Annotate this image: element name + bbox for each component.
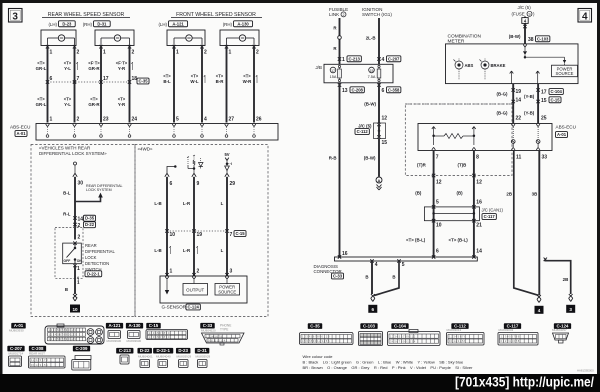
svg-text:J/C (5): J/C (5) (358, 123, 372, 128)
svg-text:LOCK SYSTEM: LOCK SYSTEM (86, 188, 112, 192)
svg-text:9: 9 (197, 181, 200, 187)
svg-text:Y-R: Y-R (118, 102, 126, 107)
svg-text:15: 15 (382, 140, 388, 146)
G-SENSOR box (160, 276, 247, 303)
svg-text:1 2 3 4 5 6 7 8: 1 2 3 4 5 6 7 8 (206, 335, 223, 338)
svg-text:B: B (65, 287, 68, 292)
connector C-208 below J/B (338, 83, 341, 86)
svg-text:C-15: C-15 (550, 97, 560, 102)
svg-text:2: 2 (132, 50, 135, 56)
svg-text:3 4 5 6 7 8 9 0 1 2 3 4: 3 4 5 6 7 8 9 0 1 2 3 4 (390, 339, 416, 343)
svg-text:J/B: J/B (315, 65, 322, 70)
svg-text:12: 12 (476, 180, 482, 186)
svg-text:L: L (221, 248, 224, 253)
BRAKE warning lamp (481, 61, 489, 69)
svg-text:ABS-ECU: ABS-ECU (10, 125, 30, 130)
svg-text:(B-G): (B-G) (497, 92, 509, 97)
connector C-207 (377, 57, 380, 60)
svg-text:9: 9 (529, 13, 531, 17)
svg-text:18: 18 (132, 76, 138, 82)
svg-text:J/C (5): J/C (5) (518, 5, 532, 10)
svg-text:B: B (365, 275, 368, 280)
svg-text:<T>: <T> (37, 97, 45, 102)
svg-text:1: 1 (170, 269, 173, 275)
svg-text:MU803929: MU803929 (177, 355, 192, 359)
svg-text:Y-L: Y-L (64, 66, 71, 71)
svg-text:4: 4 (204, 117, 207, 123)
wire to G-sensor pin 1 (166, 231, 168, 276)
svg-text:6: 6 (170, 181, 173, 187)
svg-text:10: 10 (436, 223, 442, 229)
svg-text:<T>: <T> (90, 97, 98, 102)
svg-text:<T> (B-L): <T> (B-L) (406, 238, 426, 243)
wire GR-R rear RH+ to ABS-ECU (100, 47, 102, 123)
svg-text:MU803930: MU803930 (107, 339, 122, 343)
wire CAN-L ECU pin 8 to diagnosis pin 14 (473, 151, 475, 258)
body ground (rear diff switch) (73, 294, 77, 298)
inline connector D-22 (73, 223, 76, 226)
svg-text:MU801714: MU801714 (9, 352, 24, 356)
svg-text:6: 6 (50, 76, 53, 82)
svg-text:[701x435] http://upic.me/: [701x435] http://upic.me/ (455, 374, 594, 390)
fusible link wire (339, 18, 341, 64)
body ground (diagnosis) (371, 294, 375, 298)
svg-text:17: 17 (331, 69, 335, 73)
inline connector D-35 (73, 216, 76, 219)
svg-text:9 10 11 12 13 4: 9 10 11 12 13 4 (208, 339, 226, 342)
svg-text:<T> (B-L): <T> (B-L) (449, 238, 469, 243)
page number box 3 (9, 9, 23, 23)
svg-text:D-22: D-22 (140, 348, 150, 353)
svg-text:D-22-1: D-22-1 (87, 271, 100, 276)
svg-text:9 0 1 2 3 4 5 6: 9 0 1 2 3 4 5 6 (31, 363, 48, 367)
J/C (CAN1) C-117 (424, 207, 479, 221)
J/B junction block (324, 64, 393, 83)
svg-text:C-33: C-33 (203, 323, 213, 328)
svg-text:D-22: D-22 (85, 222, 95, 227)
connector pinout C-209 (73, 346, 90, 352)
svg-text:15: 15 (541, 98, 547, 104)
svg-text:5: 5 (176, 117, 179, 123)
svg-text:REAR HIST: REAR HIST (29, 352, 45, 356)
svg-text:<T>: <T> (243, 74, 251, 79)
svg-text:7: 7 (77, 76, 80, 82)
svg-text:DETECTION: DETECTION (85, 261, 109, 266)
B-W wire: ignition feed (378, 83, 380, 123)
pin 30 wire from ECU (74, 162, 77, 165)
svg-text:Y-R: Y-R (118, 66, 126, 71)
svg-text:DIFFERENTIAL: DIFFERENTIAL (85, 249, 115, 254)
svg-text:38: 38 (528, 37, 534, 43)
diagnosis connector C-33 bar (335, 257, 478, 261)
svg-text:C-207: C-207 (10, 346, 23, 351)
svg-text:1 2 3 4 5 6 7 8: 1 2 3 4 5 6 7 8 (449, 335, 466, 339)
svg-text:L-B: L-B (154, 201, 161, 206)
svg-text:1: 1 (103, 50, 106, 56)
svg-text:30: 30 (78, 181, 84, 187)
svg-text:B-L: B-L (163, 79, 171, 84)
svg-text:MU803930: MU803930 (127, 339, 142, 343)
svg-text:1 2 3 4 5 6 7 8: 1 2 3 4 5 6 7 8 (31, 358, 48, 362)
connector pinout C-112 (451, 323, 468, 329)
R-B wire down to diagnosis connector pin 16 (339, 83, 341, 257)
svg-text:(B-W): (B-W) (509, 34, 521, 39)
svg-text:Y-L: Y-L (64, 102, 71, 107)
svg-text:22: 22 (516, 116, 522, 122)
svg-text:2: 2 (204, 50, 207, 56)
svg-text:C-33: C-33 (333, 274, 343, 279)
svg-text:6: 6 (382, 88, 385, 94)
svg-text:A-01: A-01 (14, 323, 24, 328)
svg-text:1: 1 (229, 50, 232, 56)
svg-text:1: 1 (50, 50, 53, 56)
fuse 15 7.5A (369, 67, 375, 73)
svg-text:G-SENSOR: G-SENSOR (162, 305, 187, 310)
connector pinout A-01 (11, 323, 25, 329)
svg-text:MU803043: MU803043 (499, 328, 514, 332)
svg-text:1 2 3 4 5 6 7 8 9: 1 2 3 4 5 6 7 8 9 (501, 335, 520, 339)
svg-text:<F·T>: <F·T> (88, 61, 100, 66)
svg-text:3: 3 (12, 12, 18, 23)
body ground 4 (537, 295, 541, 299)
wire Y-R rear RH- to ABS-ECU (129, 47, 131, 123)
svg-text:7.5A: 7.5A (368, 75, 376, 79)
svg-text:27: 27 (229, 117, 235, 123)
svg-text:MU804520: MU804520 (201, 329, 216, 333)
svg-text:C-15: C-15 (149, 323, 159, 328)
svg-text:LOCK: LOCK (85, 255, 97, 260)
wire B-R front RH+ to ABS-ECU (226, 47, 228, 123)
svg-text:C-208: C-208 (351, 87, 363, 92)
svg-text:2: 2 (77, 117, 80, 123)
wire G-sensor pin 9 (193, 177, 195, 231)
diagnosis ground wires (370, 259, 373, 262)
svg-text:16: 16 (342, 251, 348, 257)
svg-text:19: 19 (197, 232, 203, 238)
svg-text:4: 4 (375, 262, 378, 268)
svg-text:3: 3 (569, 307, 572, 312)
connector pinout C-104 (391, 323, 408, 329)
svg-text:C-209: C-209 (76, 346, 89, 351)
svg-text:B-R: B-R (216, 79, 225, 84)
connector pinout A-121 (106, 323, 123, 329)
wire Y-L rear LH- to ABS-ECU (74, 47, 76, 123)
svg-text:SOURCE: SOURCE (556, 71, 574, 76)
body ground 3 (569, 294, 573, 298)
svg-text:14: 14 (516, 98, 522, 104)
svg-text:A-130: A-130 (237, 21, 249, 26)
svg-text:(B): (B) (457, 191, 464, 196)
svg-text:OFF: OFF (64, 259, 71, 263)
svg-text:10: 10 (170, 232, 176, 238)
svg-text:6: 6 (436, 249, 439, 255)
connector pinout D-22-1 (153, 348, 173, 354)
wire G-sensor pin 29 (226, 177, 228, 231)
junction dotted line C-35 (48, 81, 131, 83)
ECU ground wires 11 and 33 (514, 151, 539, 296)
ABS-ECU right box (418, 124, 552, 151)
svg-text:D-23: D-23 (178, 348, 188, 353)
svg-text:4: 4 (382, 57, 385, 63)
svg-text:1: 1 (50, 117, 53, 123)
ignition wire (378, 18, 380, 64)
ECU internal lamp drivers (511, 124, 513, 127)
meter outputs to ECU (511, 71, 513, 84)
svg-text:GR-L: GR-L (36, 102, 47, 107)
wire to G-sensor pin 3 (226, 231, 228, 276)
OUTPUT box (183, 284, 208, 296)
inline connector C-15 right (512, 100, 515, 103)
meter internal feed bus (523, 45, 525, 48)
svg-text:4 5 6 7 8 9 0 1 2 3 4 5 6: 4 5 6 7 8 9 0 1 2 3 4 5 6 (302, 339, 330, 343)
svg-text:2B: 2B (563, 277, 569, 282)
svg-text:(Y-B): (Y-B) (524, 111, 535, 116)
svg-text:24: 24 (132, 117, 138, 123)
svg-text:4: 4 (582, 12, 588, 23)
connector pinout C-103 (360, 323, 377, 329)
svg-text:10: 10 (72, 307, 78, 312)
ABS-ECU terminal 3 (99, 124, 101, 127)
rear differential lock detection switch (55, 228, 83, 279)
svg-text:2: 2 (77, 50, 80, 56)
svg-text:C-207: C-207 (388, 56, 400, 61)
svg-text:«4WD»: «4WD» (138, 147, 154, 152)
svg-text:1 2 3 4 5 6 7 8 9 0: 1 2 3 4 5 6 7 8 9 0 (149, 331, 170, 335)
svg-text:(FUSE: (FUSE (512, 12, 525, 17)
svg-text:17: 17 (103, 76, 109, 82)
svg-text:1 2 3 4 5 6 7 8 9 0 1 2 3: 1 2 3 4 5 6 7 8 9 0 1 2 3 (49, 328, 77, 332)
svg-text:(T)R: (T)R (417, 163, 427, 168)
connector pinout C-124 (554, 323, 571, 329)
ABS-ECU terminal 4 (128, 124, 130, 127)
connector pinout C-117 (504, 323, 521, 329)
svg-text:(B-G): (B-G) (497, 111, 509, 116)
svg-text:<T>: <T> (163, 74, 171, 79)
svg-text:2: 2 (197, 269, 200, 275)
svg-text:C-35: C-35 (310, 324, 320, 329)
svg-text:<T>: <T> (37, 61, 45, 66)
svg-text:C-112: C-112 (357, 129, 369, 134)
connector pinout D-31 (195, 348, 209, 354)
connector pinout C-15 (146, 323, 160, 329)
svg-text:C-103: C-103 (537, 36, 549, 41)
svg-text:L-R: L-R (183, 201, 191, 206)
svg-text:<T>: <T> (118, 97, 126, 102)
connector pinout C-35 (308, 323, 322, 329)
wire W-R front RH- to ABS-ECU (253, 47, 255, 123)
svg-text:ON: ON (77, 259, 83, 263)
fuse 17 15A (330, 67, 336, 73)
svg-text:(RH): (RH) (83, 22, 93, 27)
svg-text:<F·T>: <F·T> (116, 61, 128, 66)
wires meter to ABS-ECU (512, 84, 514, 123)
svg-text:2: 2 (343, 13, 345, 17)
svg-text:DIFFERENTIAL LOCK SYSTEM»: DIFFERENTIAL LOCK SYSTEM» (39, 151, 107, 156)
svg-text:MU803929: MU803929 (196, 355, 211, 359)
svg-text:1 2 3 4 5 6 7 8 9 0 1 2 3: 1 2 3 4 5 6 7 8 9 0 1 2 3 (49, 333, 77, 337)
svg-text:C-15: C-15 (235, 231, 245, 236)
svg-text:1: 1 (77, 266, 80, 272)
svg-text:OUTPUT: OUTPUT (186, 288, 204, 293)
svg-text:MU803057: MU803057 (552, 328, 567, 332)
svg-text:A-01: A-01 (557, 132, 567, 137)
svg-text:COMBINATION: COMBINATION (448, 34, 482, 40)
svg-text:12: 12 (382, 116, 388, 122)
svg-text:(LH): (LH) (158, 22, 167, 27)
svg-text:W-R: W-R (243, 79, 253, 84)
wire CAN-H ECU pin 7 to diagnosis pin 6 (433, 151, 435, 258)
svg-text:A: A (378, 178, 381, 183)
svg-text:1 2 3 4 5 6 7 8 9 0 1 2 3: 1 2 3 4 5 6 7 8 9 0 1 2 3 (302, 335, 330, 339)
svg-text:L-B: L-B (154, 248, 161, 253)
svg-text:26: 26 (256, 117, 262, 123)
dashed box: vehicles with rear differential lock system (31, 145, 135, 317)
svg-text:R-B: R-B (329, 156, 337, 161)
svg-text:2: 2 (256, 50, 259, 56)
ABS-ECU terminal 7 (225, 124, 227, 127)
svg-text:2: 2 (78, 223, 81, 229)
svg-text:A-01: A-01 (16, 131, 26, 136)
svg-text:29: 29 (230, 181, 236, 187)
connector pinout C-213 (116, 348, 133, 354)
svg-text:2: 2 (78, 234, 81, 240)
ABS-ECU terminal 2 (73, 124, 75, 127)
svg-text:11: 11 (516, 155, 522, 161)
svg-text:2B: 2B (506, 192, 512, 197)
svg-text:5V: 5V (224, 152, 229, 157)
svg-text:B: B (392, 275, 395, 280)
svg-text:MU804040: MU804040 (156, 355, 171, 359)
connector pinout D-23 (176, 348, 190, 354)
svg-text:C-104: C-104 (394, 324, 407, 329)
svg-text:ABS: ABS (465, 63, 474, 68)
svg-text:BRAKE: BRAKE (491, 63, 506, 68)
svg-text:MU803930: MU803930 (9, 329, 24, 333)
svg-text:SWITCH (IG1): SWITCH (IG1) (362, 12, 392, 17)
POWER SOURCE box (meter) (552, 65, 578, 77)
svg-text:(B): (B) (415, 191, 422, 196)
wire B-L front LH+ to ABS-ECU (173, 47, 175, 123)
svg-text:15: 15 (370, 69, 374, 73)
junction dotted line C-15 (left) (167, 230, 227, 232)
svg-text:REAR WHEEL SPEED SENSOR: REAR WHEEL SPEED SENSOR (48, 12, 125, 18)
svg-text:5: 5 (436, 200, 439, 206)
svg-text:17: 17 (541, 90, 547, 96)
svg-text:C-213: C-213 (119, 348, 132, 353)
svg-text:J/C (CAN1): J/C (CAN1) (482, 208, 504, 213)
svg-text:9 0 1 2 3 4 5 6: 9 0 1 2 3 4 5 6 (449, 339, 466, 343)
svg-text:Wire colour code: Wire colour code (303, 354, 334, 359)
svg-text:14: 14 (476, 249, 482, 255)
svg-text:12: 12 (436, 180, 442, 186)
connector C-358 below J/B (377, 83, 380, 86)
svg-text:C-213: C-213 (348, 56, 360, 61)
svg-text:A-130: A-130 (129, 323, 142, 328)
svg-text:(LH): (LH) (48, 22, 57, 27)
ABS-ECU terminal 5 (172, 124, 174, 127)
ECU internal CAN terminating resistor (433, 127, 435, 135)
wire to G-sensor pin 2 (193, 231, 195, 276)
svg-text:«VEHICLES WITH REAR: «VEHICLES WITH REAR (39, 146, 91, 151)
svg-text:C-103: C-103 (363, 324, 376, 329)
svg-text:D-31: D-31 (97, 21, 107, 26)
svg-text:C-35: C-35 (138, 79, 148, 84)
svg-text:C-104: C-104 (550, 89, 562, 94)
svg-text:L-R: L-R (183, 248, 191, 253)
svg-text:1: 1 (176, 50, 179, 56)
svg-text:GR-R: GR-R (88, 102, 100, 107)
svg-text:<T>: <T> (191, 74, 199, 79)
wire 2B to ground 3 (544, 258, 547, 261)
svg-text:1: 1 (77, 280, 80, 285)
svg-text:3: 3 (230, 269, 233, 275)
svg-text:23: 23 (103, 117, 109, 123)
svg-text:25: 25 (541, 116, 547, 122)
svg-text:(Y-B): (Y-B) (524, 94, 535, 99)
svg-text:(RH): (RH) (223, 22, 233, 27)
wire G-sensor pin 6 (166, 177, 168, 231)
svg-text:7: 7 (230, 232, 233, 238)
svg-text:14: 14 (78, 216, 84, 222)
ECU internals 4WD: output stub (167, 167, 175, 174)
svg-text:15A: 15A (330, 75, 337, 79)
svg-text:5: 5 (402, 262, 405, 268)
svg-text:21: 21 (476, 223, 482, 229)
svg-text:1 2 3 4 5 6 7 8 9 0: 1 2 3 4 5 6 7 8 9 0 (149, 335, 170, 339)
svg-text:2L-B: 2L-B (366, 36, 376, 41)
svg-text:16: 16 (476, 200, 482, 206)
svg-text:R-L: R-L (63, 212, 71, 217)
svg-text:6: 6 (372, 307, 375, 312)
svg-text:SOURCE: SOURCE (218, 289, 236, 294)
svg-text:19: 19 (516, 89, 522, 95)
svg-text:TYPE: TYPE (220, 328, 228, 332)
svg-text:7: 7 (436, 155, 439, 161)
svg-text:ABS-ECU: ABS-ECU (556, 125, 576, 130)
svg-text:3B: 3B (532, 192, 538, 197)
svg-text:4: 4 (538, 308, 541, 313)
svg-text:B-L: B-L (63, 191, 71, 196)
ABS-ECU terminal 1 (46, 124, 48, 127)
svg-text:MU803013: MU803013 (447, 328, 462, 332)
svg-text:<T>: <T> (64, 97, 72, 102)
svg-text:W-L: W-L (190, 79, 199, 84)
svg-text:1 2 3 4 5 6 7 8 9 0 1 2 3: 1 2 3 4 5 6 7 8 9 0 1 2 3 (49, 337, 77, 341)
ABS-ECU left strip (36, 124, 278, 141)
svg-text:1 2 3 4 5 6 7 8 9 0 1 2: 1 2 3 4 5 6 7 8 9 0 1 2 (390, 334, 416, 338)
ABS-ECU terminal 6 (200, 124, 202, 127)
svg-text:FRONT WHEEL SPEED SENSOR: FRONT WHEEL SPEED SENSOR (176, 12, 256, 18)
svg-text:D-31: D-31 (197, 348, 207, 353)
connector pinout D-22 (137, 348, 151, 354)
connector pinout C-207 (7, 346, 24, 352)
svg-text:1: 1 (342, 57, 345, 63)
svg-text:8: 8 (476, 155, 479, 161)
wire W-L front LH- to ABS-ECU (201, 47, 203, 123)
svg-text:C-124: C-124 (187, 305, 199, 310)
svg-text:C-358: C-358 (388, 87, 400, 92)
svg-text:D-22-1: D-22-1 (156, 348, 170, 353)
ABS warning lamp (455, 61, 463, 69)
watermark bar (0, 374, 600, 392)
svg-text:(T)B: (T)B (458, 163, 467, 168)
svg-text:HA8133E000: HA8133E000 (577, 369, 594, 373)
svg-text:B : Black LG : Light green: B : Black LG : Light green G : Green L :… (303, 360, 465, 365)
svg-text:13: 13 (342, 88, 348, 94)
ECU internals: zener/resistor cluster (187, 157, 189, 165)
svg-text:LINK: LINK (329, 12, 340, 17)
connector C-213 (338, 57, 341, 60)
